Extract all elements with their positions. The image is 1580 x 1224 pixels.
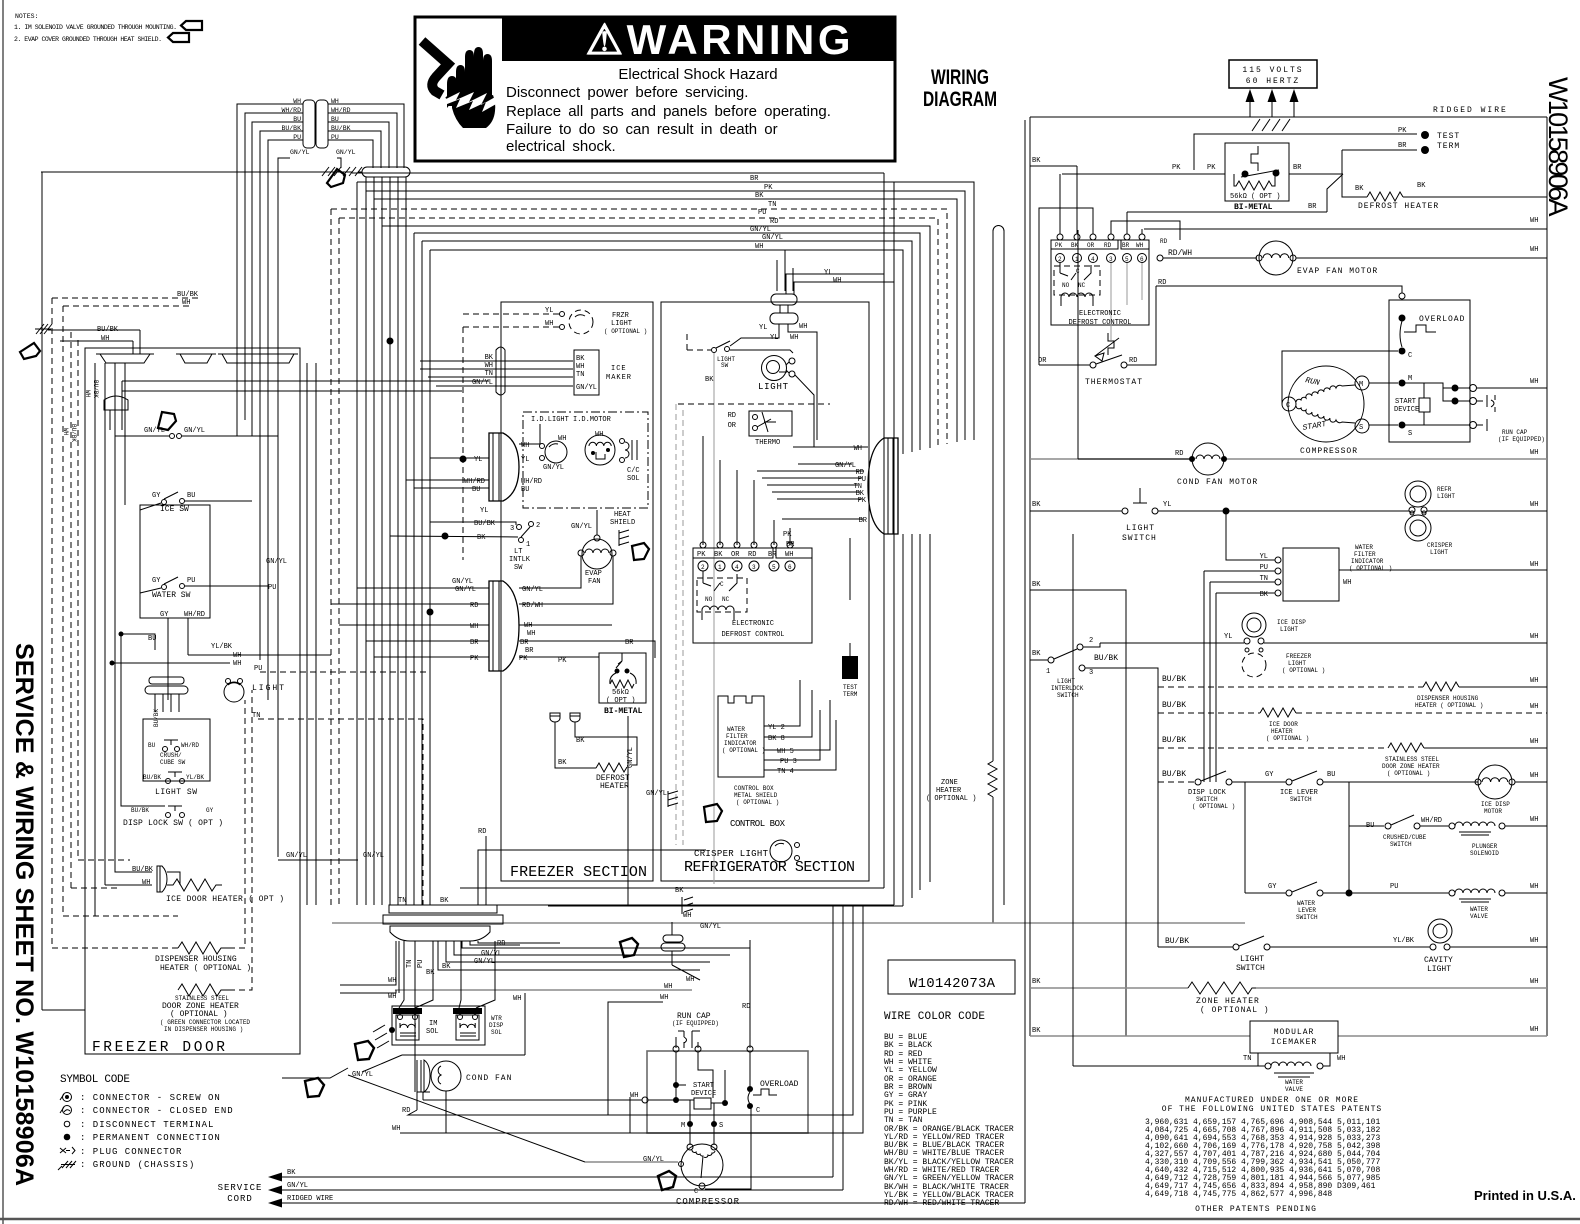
test term top [1194,127,1460,174]
svg-text:DOOR ZONE HEATER: DOOR ZONE HEATER [1382,763,1440,770]
svg-text:FAN: FAN [588,578,601,586]
svg-text:MOTOR: MOTOR [1484,808,1502,815]
svg-text:LIGHT: LIGHT [1126,524,1155,533]
svg-text:SWITCH: SWITCH [1122,534,1157,543]
svg-text:REFRIGERATOR SECTION: REFRIGERATOR SECTION [684,859,855,876]
plug connector left [20,343,40,359]
start device overload enclosure [423,1046,808,1145]
svg-text:YL: YL [1163,501,1171,509]
svg-text:STAINLESS STEEL: STAINLESS STEEL [1385,756,1439,763]
control box shield [646,785,779,822]
svg-text:( OPTIONAL ): ( OPTIONAL ) [604,328,647,335]
thermo box [728,411,792,447]
left page border [2,0,4,1224]
svg-text:BK: BK [1032,157,1041,165]
svg-text:BK: BK [1355,185,1364,193]
bundle labels [750,175,783,251]
corridor drop wires right of compressor [608,905,863,1190]
switch box [140,505,210,618]
svg-text:Replace all parts and panels b: Replace all parts and panels before oper… [506,103,831,120]
svg-text:RIDGED WIRE: RIDGED WIRE [1433,106,1508,115]
svg-text:WH: WH [392,1125,400,1133]
svg-text:GN/YL: GN/YL [287,1182,308,1190]
svg-text:WH: WH [527,630,535,638]
svg-text:WH: WH [854,445,862,453]
svg-text:2: 2 [1089,637,1093,645]
svg-text:INDICATOR: INDICATOR [724,740,757,747]
ice maker plug [496,347,505,395]
svg-text:S: S [1359,424,1363,432]
svg-text:WH: WH [513,995,521,1003]
corridor lower verticals [903,534,930,906]
svg-text:WH: WH [576,363,584,371]
svg-text:TEST: TEST [1437,132,1460,141]
svg-text:WH/RD: WH/RD [1421,817,1442,825]
svg-text:WH: WH [1337,1055,1345,1063]
notes text [14,13,177,43]
door dashed riser 1 [52,298,200,948]
svg-text:CUBE SW: CUBE SW [160,759,186,766]
svg-text:GN/YL: GN/YL [286,852,307,860]
water lever + water valve row [1245,782,1547,921]
labels above connector [398,828,486,905]
ground chassis left [35,172,140,1010]
svg-text:PK: PK [858,497,867,505]
svg-text:BU/BK: BU/BK [1162,675,1186,684]
upper plug connector D [489,433,519,501]
svg-text:EVAP: EVAP [585,570,602,578]
svg-text:GN/YL: GN/YL [455,586,476,594]
light interlock switch right [1030,637,1158,947]
water filter indicator right [1030,511,1547,1036]
svg-text:C: C [720,581,724,588]
main door harness connector [383,905,503,941]
bottom page border [0,1218,1580,1221]
svg-text:CORD: CORD [227,1194,253,1204]
svg-text:M: M [1359,381,1363,389]
svg-text:WH: WH [485,362,493,370]
svg-text:RD: RD [770,218,778,226]
svg-text:GY: GY [206,807,214,814]
terminal plugs [550,713,560,722]
svg-text:BK: BK [1032,650,1041,658]
svg-text:ICEMAKER: ICEMAKER [1271,1038,1317,1047]
svg-text:TN: TN [406,960,414,968]
svg-text:LIGHT: LIGHT [1280,626,1298,633]
svg-text:COMPRESSOR: COMPRESSOR [676,1197,740,1207]
ice maker box [574,350,632,395]
svg-text:GN/YL: GN/YL [363,852,384,860]
svg-text:PK: PK [764,184,773,192]
svg-text:WH: WH [1530,217,1538,225]
svg-text:GN/YL = GREEN/YELLOW TRACER: GN/YL = GREEN/YELLOW TRACER [884,1174,1014,1183]
svg-text:PU 3: PU 3 [780,758,797,766]
svg-text:GN/YL: GN/YL [762,234,783,242]
svg-text:SOLENOID: SOLENOID [1470,850,1499,857]
svg-text:TERM: TERM [843,691,858,698]
svg-text:RD: RD [1160,238,1168,245]
svg-text:( OPTIONAL ): ( OPTIONAL ) [1192,803,1235,810]
svg-text:YL/BK: YL/BK [211,643,233,651]
svg-text:M: M [1408,375,1412,383]
svg-text:: CONNECTOR - SCREW ON: : CONNECTOR - SCREW ON [80,1093,221,1103]
svg-text:SERVICE & WIRING SHEET NO. W10: SERVICE & WIRING SHEET NO. W10158906A [10,643,38,1186]
svg-text:GN/YL: GN/YL [835,462,856,470]
svg-text:CRUSH/: CRUSH/ [160,752,182,759]
svg-text:C/C: C/C [627,467,640,475]
svg-text:PK: PK [519,655,528,663]
stainless door zone heater [160,690,252,1033]
cord hash [1252,119,1290,131]
svg-text:( OPTIONAL ): ( OPTIONAL ) [926,795,976,803]
light sw rfg [687,324,793,884]
run cap bottom [660,940,750,1048]
svg-text:ICE DOOR: ICE DOOR [1269,721,1298,728]
symbol icons [58,1093,76,1171]
svg-text:MAKER: MAKER [606,374,632,382]
svg-text:MANUFACTURED UNDER ONE OR MORE: MANUFACTURED UNDER ONE OR MORE [1185,1096,1359,1105]
svg-text:LIGHT: LIGHT [758,382,789,392]
svg-text:: PERMANENT CONNECTION: : PERMANENT CONNECTION [80,1133,221,1143]
block left wires bending down [237,104,303,857]
svg-text:GN/YL: GN/YL [571,523,592,531]
defrost heater frz [555,730,637,791]
svg-text:RD/WH: RD/WH [1168,249,1192,258]
svg-text:BU/BK: BU/BK [153,709,160,727]
svg-text:BK: BK [755,192,764,200]
modular icemaker row [1030,534,1547,1093]
heat shield [610,511,649,560]
svg-text:HEAT: HEAT [614,511,631,519]
svg-text:WH: WH [545,320,553,328]
svg-text:OF THE FOLLOWING UNITED STATES: OF THE FOLLOWING UNITED STATES PATENTS [1162,1105,1382,1114]
svg-text:1: 1 [526,541,530,549]
block right wires bending down [328,104,404,168]
svg-text:ICE DOOR HEATER ( OPT ): ICE DOOR HEATER ( OPT ) [166,895,284,904]
svg-text:WH: WH [686,976,694,984]
svg-text:2: 2 [701,564,705,571]
svg-text:M: M [681,1122,685,1130]
svg-text:Failure to do so can result in: Failure to do so can result in death or [506,121,778,138]
svg-text:5: 5 [772,564,776,571]
svg-text:FREEZER SECTION: FREEZER SECTION [510,864,647,881]
wire from trapA down [95,330,489,916]
svg-text:ZONE: ZONE [941,779,958,787]
gn/yl junction [115,427,278,439]
svg-text:NC: NC [722,596,730,603]
svg-text:2: 2 [1058,256,1062,263]
svg-text:3: 3 [752,564,756,571]
ice disp light right [1100,613,1547,644]
svg-text:( OPTIONAL ): ( OPTIONAL ) [736,799,779,806]
svg-text:BU/BK: BU/BK [1162,701,1186,710]
svg-text:BU/BK: BU/BK [1162,736,1186,745]
ice maker wires [420,361,573,386]
svg-text:CONTROL BOX: CONTROL BOX [734,785,774,792]
svg-text:WH: WH [630,1092,638,1100]
svg-text:BR: BR [750,175,759,183]
staircase wires to service cord [282,120,1025,1203]
svg-text:WH: WH [1530,378,1538,386]
svg-text:WH: WH [1530,772,1538,780]
stacked connector top [770,294,798,324]
freezer door box [85,348,300,1054]
svg-text:ICE DISP: ICE DISP [1277,619,1306,626]
svg-text:SYMBOL CODE: SYMBOL CODE [60,1074,130,1086]
svg-text:YL/BK: YL/BK [1393,937,1415,945]
service cord [218,1169,334,1208]
svg-text:3: 3 [510,525,514,533]
svg-text:S: S [1408,430,1412,438]
ice door heater [132,866,284,904]
svg-text:MODULAR: MODULAR [1274,1028,1315,1037]
svg-text:ELECTRONIC: ELECTRONIC [1079,310,1121,318]
svg-text:WH/RD: WH/RD [521,478,542,486]
svg-text:BR: BR [470,639,479,647]
svg-text:TN: TN [398,897,406,905]
svg-text:WH: WH [1343,579,1351,587]
svg-text:BK: BK [705,376,714,384]
svg-text:GY: GY [152,577,161,585]
svg-text:COND FAN MOTOR: COND FAN MOTOR [1177,478,1258,487]
closed-end connector pair [104,396,128,430]
svg-text:DIAGRAM: DIAGRAM [923,88,997,111]
svg-text:DEVICE: DEVICE [691,1090,716,1098]
svg-text:DEVICE: DEVICE [1394,406,1419,414]
overload right [1389,300,1470,442]
edge connector trapezoid B [176,354,216,363]
svg-text:BU: BU [187,492,195,500]
svg-text:NOTES:: NOTES: [15,13,38,20]
svg-text:PK: PK [1207,164,1216,172]
svg-text:GN/YL: GN/YL [643,1156,664,1164]
door dashed risers bottom bends [52,860,178,948]
crush cube switch box [143,719,210,781]
svg-text:BU/BK: BU/BK [1162,770,1186,779]
crisper light right [1405,511,1453,556]
im sol wtr disp sol assembly [362,993,525,1072]
svg-text:START: START [693,1082,714,1090]
svg-text:CAVITY: CAVITY [1424,956,1453,965]
svg-text:SWITCH: SWITCH [1296,914,1318,921]
svg-text:GN/YL: GN/YL [750,226,771,234]
freezer section box [501,302,653,881]
svg-text:IN DISPENSER HOUSING ): IN DISPENSER HOUSING ) [164,1026,243,1033]
svg-text:WH: WH [470,623,478,631]
svg-text:WATER: WATER [727,726,745,733]
svg-text:DEFROST CONTROL: DEFROST CONTROL [721,631,784,639]
svg-text:PK: PK [1055,242,1063,249]
svg-text:ICE: ICE [611,365,627,373]
svg-text:FILTER: FILTER [1354,551,1376,558]
warning box [415,16,895,161]
svg-text:SHIELD: SHIELD [610,519,635,527]
svg-text:PK: PK [783,531,792,539]
svg-text:LIGHT: LIGHT [1430,549,1448,556]
svg-text:OVERLOAD: OVERLOAD [1419,315,1465,324]
svg-text:SWITCH: SWITCH [1196,796,1218,803]
svg-text:DISPENSER HOUSING: DISPENSER HOUSING [155,955,237,964]
door light [224,679,286,703]
plug connector below pill [327,169,345,187]
svg-text:LT: LT [514,548,522,556]
svg-text:BR: BR [1308,203,1317,211]
svg-text:SWITCH: SWITCH [1057,692,1079,699]
svg-text:RD: RD [1129,357,1137,365]
svg-text:1. IM SOLENOID VALVE GROUNDED: 1. IM SOLENOID VALVE GROUNDED THROUGH MO… [14,24,177,31]
svg-text:5: 5 [1125,256,1129,263]
svg-text:C: C [1408,352,1412,360]
svg-text:WIRE COLOR CODE: WIRE COLOR CODE [884,1011,985,1023]
svg-text:OR: OR [1038,357,1047,365]
svg-text:SOL: SOL [627,475,640,483]
svg-text:THERMO: THERMO [755,439,780,447]
pk wire to bimetal [1062,173,1225,175]
svg-text:BK: BK [714,551,723,559]
svg-text:BR: BR [525,647,534,655]
gray wh bus right [1030,458,1192,460]
svg-text:NC: NC [1078,282,1086,289]
svg-text:WATER: WATER [1470,906,1488,913]
svg-text:BK = BLACK: BK = BLACK [884,1041,932,1050]
svg-text:OR: OR [1087,242,1095,249]
svg-text:WH: WH [1530,561,1538,569]
svg-text:HEATER: HEATER [936,787,962,795]
svg-text:YL: YL [1224,633,1232,641]
svg-text:SWITCH: SWITCH [1290,796,1312,803]
svg-text:GN/YL: GN/YL [646,790,667,798]
svg-text:Disconnect power before servic: Disconnect power before servicing. [506,84,748,101]
svg-text:BK: BK [1032,978,1041,986]
svg-text:OR: OR [728,422,737,430]
svg-text:YL 2: YL 2 [768,724,785,732]
svg-text:YL: YL [545,307,553,315]
svg-text:BR: BR [1293,164,1302,172]
gray WH bus middle [332,922,1245,924]
svg-text:TN: TN [768,201,776,209]
svg-text:WATER: WATER [1355,544,1373,551]
crushed/cube + plunger solenoid row [1349,782,1547,857]
svg-text:FRZR: FRZR [612,312,630,320]
light sw [143,772,204,797]
svg-text:WH/BU = WHITE/BLUE TRACER: WH/BU = WHITE/BLUE TRACER [884,1149,1004,1158]
svg-text:WH: WH [101,335,109,343]
svg-text:BU/BK: BU/BK [97,326,119,334]
svg-text:HEATER: HEATER [1271,728,1293,735]
svg-text:115 VOLTS: 115 VOLTS [1242,66,1303,75]
svg-text:BU/BK: BU/BK [474,520,496,528]
plug connector note2 [168,33,189,42]
ground hatch at pill [322,167,362,176]
pill connector top [358,167,410,177]
light switch right [1030,488,1409,543]
svg-text:WH: WH [1530,633,1538,641]
svg-text:OVERLOAD: OVERLOAD [760,1080,799,1089]
ice switch [140,492,252,514]
rfg connector D right edge [868,438,898,534]
bimetal box right [1172,143,1302,212]
svg-text:3: 3 [1109,256,1113,263]
svg-text:GN/YL: GN/YL [144,427,165,435]
svg-text:RD: RD [1104,242,1112,249]
svg-text:FILTER: FILTER [726,733,748,740]
svg-text:GN/YL: GN/YL [452,578,473,586]
dashed control boundary [676,404,683,845]
svg-text:SWITCH: SWITCH [1236,964,1265,973]
svg-text:I.D.LIGHT I.D.MOTOR: I.D.LIGHT I.D.MOTOR [531,416,612,424]
water switch [140,577,268,600]
bundle horizontals wrapping right [357,182,974,442]
svg-text:BU/BK: BU/BK [131,807,149,814]
svg-text:YL: YL [480,507,488,515]
svg-text:BU: BU [472,486,480,494]
svg-text:HEATER ( OPTIONAL ): HEATER ( OPTIONAL ) [1415,702,1483,709]
svg-text:WH: WH [1530,937,1538,945]
svg-text:GY: GY [160,611,169,619]
svg-text:START: START [1395,398,1416,406]
compressor bottom [348,1075,751,1207]
svg-text:: GROUND (CHASSIS): : GROUND (CHASSIS) [80,1160,195,1170]
cond fan [417,1060,512,1110]
svg-text:Electrical Shock Hazard: Electrical Shock Hazard [618,66,777,83]
svg-text:LIGHT: LIGHT [1240,955,1264,964]
svg-text:electrical shock.: electrical shock. [506,138,616,155]
svg-text:( OPTIONAL ): ( OPTIONAL ) [1200,1006,1270,1015]
svg-text:DEFROST HEATER: DEFROST HEATER [1358,202,1439,211]
svg-text:WH: WH [755,243,763,251]
svg-text:DISPENSER HOUSING: DISPENSER HOUSING [1417,695,1479,702]
zone heater row right [1030,978,1547,1015]
svg-text:COND FAN: COND FAN [466,1074,512,1083]
svg-text:LIGHT: LIGHT [1427,965,1451,974]
id light id motor dashdot box [523,412,648,508]
svg-text:( OPTIONAL ): ( OPTIONAL ) [1387,770,1430,777]
svg-text:WH: WH [388,993,396,1001]
svg-text:FREEZER: FREEZER [1286,653,1312,660]
run cap right [1477,395,1545,443]
svg-text:60 HERTZ: 60 HERTZ [1246,77,1300,86]
svg-text:STAINLESS STEEL: STAINLESS STEEL [175,995,229,1002]
dispenser housing heater [155,700,251,973]
M S dots [687,1121,693,1127]
disp lock + ice lever + ice disp motor row [1158,765,1547,815]
svg-text:TEST: TEST [843,684,858,691]
svg-text:OTHER PATENTS PENDING: OTHER PATENTS PENDING [1195,1205,1317,1214]
svg-text:WH: WH [683,912,691,920]
svg-text:: CONNECTOR - CLOSED END: : CONNECTOR - CLOSED END [80,1106,234,1116]
svg-text:: DISCONNECT TERMINAL: : DISCONNECT TERMINAL [80,1120,214,1130]
svg-text:SW: SW [721,362,729,369]
cond fan motor right [1078,230,1258,487]
W10142073A box [888,960,1015,994]
defrost heater right [1342,174,1547,211]
svg-text:WH: WH [790,334,798,342]
light switch + cavity light row [1158,919,1547,974]
svg-text:IM: IM [429,1020,437,1028]
svg-text:BU/BK: BU/BK [177,291,199,299]
svg-text:BU/BK: BU/BK [1165,937,1189,946]
svg-text:W10142073A: W10142073A [909,976,996,992]
edge connector trapezoid A [96,354,154,363]
svg-text:BK 8: BK 8 [768,735,785,743]
svg-text:PU: PU [758,209,766,217]
svg-text:RD/WH: RD/WH [522,602,543,610]
svg-text:WH: WH [1530,246,1538,254]
svg-text:BK: BK [477,534,486,542]
svg-text:GN/YL: GN/YL [700,923,721,931]
svg-text:GN/YL: GN/YL [576,384,597,392]
svg-text:GN/YL: GN/YL [336,149,356,156]
